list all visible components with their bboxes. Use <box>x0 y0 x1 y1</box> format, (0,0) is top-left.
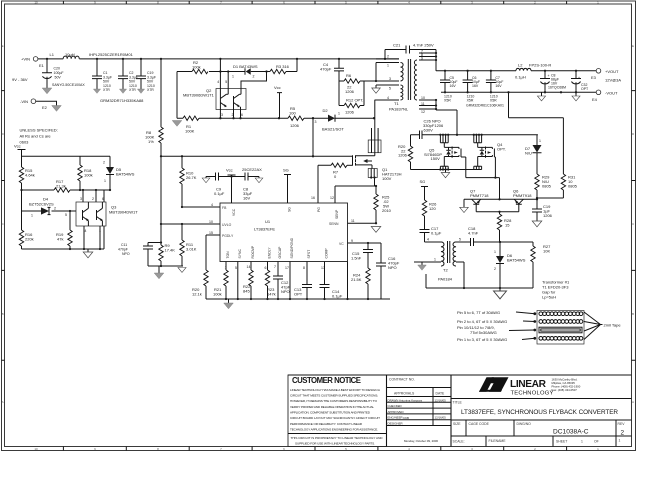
svg-text:R3 316: R3 316 <box>276 64 290 69</box>
wire row y155.5 <box>161 155 353 157</box>
svg-text:NPO: NPO <box>281 289 290 294</box>
wire left col down to D4 row <box>22 190 77 230</box>
svg-text:C11: C11 <box>121 243 127 247</box>
svg-text:3: 3 <box>315 120 317 124</box>
wire VIN top rail <box>38 58 399 60</box>
svg-text:15: 15 <box>505 223 510 228</box>
svg-text:120: 120 <box>429 206 436 211</box>
svg-text:L1: L1 <box>50 52 55 57</box>
svg-text:NPO: NPO <box>388 265 397 270</box>
winding note leader dots <box>533 312 536 315</box>
svg-text:Vcc: Vcc <box>226 168 233 173</box>
svg-text:12/16/05: 12/16/05 <box>435 398 447 402</box>
svg-text:E: E <box>2 44 4 48</box>
svg-text:3: 3 <box>389 77 391 81</box>
svg-text:150V: 150V <box>431 156 441 161</box>
capacitor C32 OPT <box>571 71 589 93</box>
wire Q1 source to sense node <box>374 178 376 187</box>
transformer T1 PA1837NL <box>375 49 458 135</box>
ground (T2 primary) <box>418 265 427 270</box>
resistor R8 <box>145 127 163 144</box>
ground (C9) <box>202 178 210 183</box>
svg-text:U1: U1 <box>265 219 271 224</box>
capacitor C16 <box>376 243 400 299</box>
svg-text:17.4K: 17.4K <box>165 248 176 253</box>
svg-text:+: + <box>548 74 550 78</box>
svg-text:PG: PG <box>317 207 321 212</box>
note transformer #1 <box>542 280 570 300</box>
svg-text:CONTRACT NO.: CONTRACT NO. <box>389 378 415 382</box>
capacitor C7 <box>486 71 504 103</box>
svg-text:D1 BAT43WS: D1 BAT43WS <box>233 64 258 69</box>
svg-text:0805: 0805 <box>568 184 578 189</box>
svg-text:0.1µF: 0.1µF <box>214 191 225 196</box>
svg-text:D2: D2 <box>323 108 329 113</box>
resistor R25 sense <box>374 186 392 223</box>
net SG stub <box>283 168 291 204</box>
svg-text:11: 11 <box>351 219 355 223</box>
svg-text:ENG/NEER: ENG/NEER <box>388 416 403 420</box>
node dots input rail <box>46 58 48 60</box>
svg-text:C21: C21 <box>393 43 401 48</box>
svg-text:X5R: X5R <box>490 99 497 103</box>
capacitor C4 <box>320 59 344 81</box>
svg-text:T2: T2 <box>443 268 448 273</box>
svg-text:APPROVALS: APPROVALS <box>394 392 415 396</box>
svg-text:R6: R6 <box>346 73 352 78</box>
ground (C19) <box>532 221 542 227</box>
svg-text:1.5nF: 1.5nF <box>351 256 362 261</box>
svg-text:1206: 1206 <box>398 153 408 158</box>
capacitor C1 <box>92 59 112 92</box>
svg-text:100: 100 <box>289 111 296 116</box>
svg-text:4: 4 <box>427 238 429 242</box>
ground (R25) <box>371 227 381 233</box>
wire SENN row <box>348 222 377 224</box>
terminal E2 -VIN <box>20 99 48 110</box>
diode D6 BAT54WS <box>494 242 526 288</box>
svg-text:5: 5 <box>389 87 391 91</box>
svg-text:X5R: X5R <box>444 99 451 103</box>
svg-text:CKB: CKB <box>403 416 409 420</box>
svg-text:1: 1 <box>539 139 541 143</box>
wire Q3 bottom pins <box>84 226 100 249</box>
svg-text:10: 10 <box>421 96 425 100</box>
svg-text:4.7nF: 4.7nF <box>468 231 479 236</box>
svg-text:Pin 2 to 4, 6T of 5 X 30AWG: Pin 2 to 4, 6T of 5 X 30AWG <box>457 319 507 324</box>
svg-text:220k: 220k <box>25 237 34 242</box>
wire driver return y288 <box>426 274 533 288</box>
svg-text:21.5K: 21.5K <box>351 277 362 282</box>
node UVLO <box>160 223 162 225</box>
terminal E3 +VOUT <box>591 69 621 83</box>
resistor R28 <box>497 212 512 242</box>
ground (output 2) <box>572 92 580 101</box>
svg-text:SG: SG <box>283 168 289 173</box>
svg-text:APPLICATION. COMPONENT SUBSTI: APPLICATION. COMPONENT SUBSTITUTION AND … <box>290 411 371 415</box>
svg-text:OF: OF <box>594 440 599 444</box>
resistor R2 <box>192 60 208 74</box>
node A (FB row) <box>160 155 162 157</box>
transistor Q3 MBT3904DW1T (dual npn) <box>76 190 138 233</box>
svg-text:+VOUT: +VOUT <box>605 69 619 74</box>
svg-text:15: 15 <box>209 231 213 235</box>
svg-text:2010: 2010 <box>382 208 392 213</box>
svg-text:SENP: SENP <box>335 209 339 219</box>
svg-text:LINEAR TECHNOLOGY HAS MADE A B: LINEAR TECHNOLOGY HAS MADE A BEST EFFORT… <box>290 388 381 392</box>
svg-text:X7R: X7R <box>103 88 110 92</box>
svg-text:SGND/PGND: SGND/PGND <box>290 237 294 258</box>
svg-text:0603: 0603 <box>20 140 30 145</box>
primary winding bumps <box>401 63 404 81</box>
svg-text:1206: 1206 <box>345 89 355 94</box>
ground (C2) <box>119 89 126 93</box>
svg-text:17: 17 <box>285 266 289 270</box>
ground (T1 pin5) <box>372 88 381 93</box>
svg-text:CHECKED: CHECKED <box>388 404 402 408</box>
svg-text:12.1k: 12.1k <box>192 292 202 297</box>
svg-text:DESIGNER: DESIGNER <box>388 422 403 426</box>
svg-text:N/U: N/U <box>525 151 532 156</box>
svg-text:PA1837NL: PA1837NL <box>389 107 409 112</box>
svg-text:Fax: (408) 434-0507: Fax: (408) 434-0507 <box>552 388 578 392</box>
svg-text:100k: 100k <box>192 65 201 70</box>
svg-text:16V: 16V <box>495 84 502 88</box>
resistor R9 <box>159 243 175 266</box>
svg-text:50V: 50V <box>55 76 62 80</box>
capacitor C21 <box>385 43 436 54</box>
svg-text:4: 4 <box>387 96 389 100</box>
svg-text:FILENAME: FILENAME <box>489 439 507 443</box>
svg-text:1: 1 <box>232 75 234 79</box>
node dots y118 <box>219 117 221 119</box>
svg-text:12: 12 <box>330 196 334 200</box>
wire C21 risers <box>385 50 436 71</box>
secondary pins 7/8/9 <box>419 50 436 71</box>
svg-text:100K: 100K <box>185 129 195 134</box>
capacitor C8 output 68uF <box>540 71 566 93</box>
wire ground rail y299 <box>206 299 390 303</box>
svg-text:A: A <box>2 400 4 404</box>
svg-text:DC1038A-C: DC1038A-C <box>553 429 589 436</box>
svg-text:9: 9 <box>351 239 353 243</box>
svg-text:SHEET: SHEET <box>556 440 567 444</box>
svg-text:5: 5 <box>235 266 237 270</box>
svg-text:+: + <box>578 76 580 80</box>
transistor Q6 PMMT918 <box>513 189 532 212</box>
svg-text:LT3837EFE, SYNCHRONOUS FLYBACK: LT3837EFE, SYNCHRONOUS FLYBACK CONVERTER <box>461 409 618 416</box>
svg-text:2: 2 <box>54 207 56 211</box>
svg-text:2mil Tape: 2mil Tape <box>604 323 622 328</box>
wire Q2 right base branch <box>241 72 267 89</box>
svg-text:PGDLY: PGDLY <box>222 234 234 238</box>
svg-text:UNLESS SPECIFED:: UNLESS SPECIFED: <box>20 128 58 133</box>
wire ground rail y249 <box>22 226 105 252</box>
svg-text:630V: 630V <box>424 128 434 133</box>
svg-text:6: 6 <box>102 197 104 201</box>
note UNLESS SPECIFIED <box>20 128 58 145</box>
svg-text:OPT.: OPT. <box>497 147 506 152</box>
svg-text:VC: VC <box>339 242 344 246</box>
svg-text:BAT54WS: BAT54WS <box>507 258 526 263</box>
svg-text:APPROVED: APPROVED <box>388 410 404 414</box>
svg-text:X5R: X5R <box>467 99 474 103</box>
svg-text:1: 1 <box>581 440 583 444</box>
svg-text:1: 1 <box>31 214 33 218</box>
svg-text:9: 9 <box>421 57 423 61</box>
svg-text:IHPL2525CZER1R0M01: IHPL2525CZER1R0M01 <box>89 52 134 57</box>
svg-text:SUPPLIED FOR USE WITH LINEAR T: SUPPLIED FOR USE WITH LINEAR TECHNOLOGY … <box>295 441 375 445</box>
svg-text:All Rs and Cs are: All Rs and Cs are <box>20 134 52 139</box>
svg-text:5: 5 <box>459 238 461 242</box>
svg-text:0805: 0805 <box>542 184 552 189</box>
capacitor C18 <box>467 226 533 246</box>
resistor R24 <box>351 253 370 300</box>
svg-text:147k: 147k <box>267 292 276 297</box>
svg-text:-VOUT: -VOUT <box>605 91 618 96</box>
diode D5 BAT54WS <box>103 161 135 191</box>
svg-text:10: 10 <box>34 0 38 4</box>
wire PGDLY <box>206 235 220 270</box>
svg-text:GRM32DR61C106KA01: GRM32DR61C106KA01 <box>466 104 504 108</box>
svg-text:6: 6 <box>241 113 243 117</box>
resistor R26 <box>422 200 437 230</box>
svg-text:OPT: OPT <box>294 292 303 297</box>
svg-text:470pF: 470pF <box>320 67 332 72</box>
svg-text:OSCAP: OSCAP <box>278 246 282 259</box>
svg-text:SCALE:: SCALE: <box>453 440 465 444</box>
svg-text:FB: FB <box>222 206 227 210</box>
svg-text:10: 10 <box>209 220 213 224</box>
wire Q1 drain to T1 pin4 <box>374 100 376 140</box>
secondary pins 10/11/12 <box>419 100 457 135</box>
wire UVLO row <box>161 223 220 225</box>
svg-text:16V: 16V <box>472 84 479 88</box>
svg-text:4.64k: 4.64k <box>25 173 35 178</box>
size/cage/dwg row <box>466 420 616 436</box>
svg-text:Lp=5uH: Lp=5uH <box>542 295 556 300</box>
svg-text:UVLO: UVLO <box>222 223 232 227</box>
svg-text:PERFORMANCE OR RELIABILITY. C: PERFORMANCE OR RELIABILITY. CONTACT LINE… <box>290 422 363 426</box>
svg-text:1206: 1206 <box>345 110 355 115</box>
capacitor C9 <box>214 173 225 197</box>
svg-text:2: 2 <box>387 55 389 59</box>
svg-text:25CE22AX: 25CE22AX <box>242 167 262 172</box>
svg-text:1206: 1206 <box>290 123 300 128</box>
svg-text:2: 2 <box>253 75 255 79</box>
svg-text:7Tof 5x30AWG: 7Tof 5x30AWG <box>470 330 497 335</box>
svg-text:845: 845 <box>243 289 250 294</box>
svg-text:16: 16 <box>311 196 315 200</box>
svg-text:CIRCUIT BOARD LAYOUT MAY SIGNI: CIRCUIT BOARD LAYOUT MAY SIGNIFICANTLY A… <box>290 416 380 420</box>
svg-text:MBT3906DW1T1: MBT3906DW1T1 <box>183 93 215 98</box>
svg-text:14: 14 <box>247 265 251 269</box>
svg-text:SANYO-50CE100AX: SANYO-50CE100AX <box>52 83 85 87</box>
svg-text:E1: E1 <box>39 63 45 68</box>
resistor R21 <box>213 270 228 299</box>
wire emitters y211.8 <box>476 211 519 213</box>
svg-text:E4: E4 <box>592 97 598 102</box>
capacitor C19 <box>136 59 156 92</box>
wire Q2 top pins <box>220 72 228 89</box>
wire -VOUT to R31 via jog <box>509 92 564 174</box>
svg-text:3.01K: 3.01K <box>186 247 197 252</box>
svg-text:THIS CIRCUIT IS PROPRIETARY TO: THIS CIRCUIT IS PROPRIETARY TO LINEAR TE… <box>291 436 384 440</box>
ground (R1 left) <box>172 121 182 127</box>
svg-text:SG: SG <box>420 179 426 184</box>
wire SENP row y186 <box>335 186 376 203</box>
svg-text:DRAWN: DRAWN <box>388 398 399 402</box>
node dots output rails <box>444 70 446 72</box>
svg-text:REV: REV <box>618 422 626 426</box>
svg-text:C20: C20 <box>54 67 60 71</box>
svg-text:16TQC68M: 16TQC68M <box>548 86 566 90</box>
svg-text:Pin 5 to 6, 7T of 30AWG: Pin 5 to 6, 7T of 30AWG <box>457 310 500 315</box>
svg-text:10K: 10K <box>543 249 550 254</box>
ground (driver return) <box>494 288 507 299</box>
svg-text:100V: 100V <box>382 176 392 181</box>
svg-text:470pF: 470pF <box>118 248 128 252</box>
svg-text:12V@3A: 12V@3A <box>605 78 621 83</box>
resistor R29 <box>535 174 552 198</box>
capacitor C26 snubber <box>411 119 445 140</box>
ground (Q5 source) <box>441 170 450 178</box>
resistor R15 <box>19 167 34 190</box>
svg-text:1: 1 <box>387 64 389 68</box>
svg-text:SENN: SENN <box>329 222 339 226</box>
svg-text:2: 2 <box>621 430 625 437</box>
wire U1 corner to rail <box>347 262 349 300</box>
svg-text:5: 5 <box>225 80 227 84</box>
resistor R18 <box>78 165 93 190</box>
capacitor C5 <box>440 71 458 103</box>
svg-text:NPO: NPO <box>122 252 130 256</box>
svg-text:L2: L2 <box>518 63 523 68</box>
svg-text:TON: TON <box>226 251 230 259</box>
svg-text:ENDLY: ENDLY <box>268 247 272 259</box>
svg-text:1: 1 <box>494 250 496 254</box>
svg-text:11: 11 <box>421 102 425 106</box>
svg-text:0.1µF: 0.1µF <box>332 294 343 299</box>
transistor Q4 OPT (sync fet) <box>474 135 506 170</box>
svg-text:CAGE CODE: CAGE CODE <box>469 422 490 426</box>
resistor R16 <box>19 230 33 249</box>
transistor Q1 HAT2173H (nmos) <box>353 128 402 181</box>
svg-text:2: 2 <box>494 267 496 271</box>
resistor R20s 22 1206 <box>398 135 413 170</box>
zener D4 BZT52C6V2S <box>29 197 67 218</box>
core <box>408 59 410 100</box>
ground (Q7 collector) <box>460 207 469 212</box>
svg-text:VERIFY PROPER AND RELIABLE OPE: VERIFY PROPER AND RELIABLE OPERATION IN … <box>290 405 374 409</box>
svg-text:4: 4 <box>85 229 87 233</box>
inductor L1 <box>50 52 134 59</box>
svg-text:4: 4 <box>217 80 219 84</box>
svg-text:X7R: X7R <box>129 88 136 92</box>
svg-text:B: B <box>2 312 4 316</box>
resistor R11 <box>180 224 197 266</box>
svg-text:VCC: VCC <box>232 208 236 216</box>
wire E2 to ground <box>36 101 57 105</box>
wire gate drive net <box>466 157 500 199</box>
capacitor C14 <box>320 285 343 300</box>
wire R8 column <box>160 59 162 245</box>
svg-text:12/16/05: 12/16/05 <box>435 416 447 420</box>
resistor R6 <box>344 73 360 94</box>
ground (C1) <box>93 89 100 93</box>
svg-text:2: 2 <box>92 197 94 201</box>
svg-text:6: 6 <box>265 266 267 270</box>
svg-text:3: 3 <box>221 113 223 117</box>
ground (E2) <box>52 106 62 112</box>
resistor R20 <box>192 270 208 299</box>
svg-text:5: 5 <box>65 213 67 217</box>
terminal E1 +VIN <box>21 56 45 68</box>
diode D1 <box>232 64 258 79</box>
resistor R22 <box>243 270 253 299</box>
2mil tape bracket <box>584 312 603 340</box>
svg-text:MBT3904DW1T: MBT3904DW1T <box>109 210 138 215</box>
transistor Q2 MBT3906DW1T1 (dual pnp) <box>183 80 246 117</box>
svg-text:1206: 1206 <box>543 213 553 218</box>
svg-text:DWG/NO: DWG/NO <box>517 422 532 426</box>
svg-text:E3: E3 <box>591 75 597 80</box>
svg-text:47k: 47k <box>57 237 63 242</box>
capacitor C6 <box>463 71 480 103</box>
svg-text:2: 2 <box>103 161 105 165</box>
svg-text:12: 12 <box>421 110 425 114</box>
node dots row <box>219 70 221 72</box>
svg-text:E: E <box>632 44 634 48</box>
title cell <box>451 399 632 437</box>
ground (C8) <box>255 178 263 183</box>
svg-text:1: 1 <box>104 179 106 183</box>
capacitor C12 <box>273 276 291 299</box>
svg-text:8: 8 <box>303 266 305 270</box>
wire Vcc row y157 <box>22 156 111 167</box>
svg-text:T1: T1 <box>394 101 399 106</box>
capacitor C2 <box>118 59 138 92</box>
svg-text:FP2S-100-R: FP2S-100-R <box>529 63 551 68</box>
svg-text:BAT54WS: BAT54WS <box>116 172 135 177</box>
wire Q2 bottom pins <box>220 89 240 119</box>
winding stack diagram <box>457 310 621 344</box>
svg-text:BZT52C6V2S: BZT52C6V2S <box>29 202 54 207</box>
svg-text:TITLE: TITLE <box>453 401 463 405</box>
svg-text:LT3837EFE: LT3837EFE <box>254 227 275 232</box>
resistor R10 <box>180 156 197 207</box>
power Vcc (U1) <box>226 168 236 204</box>
ground (U1 rail) <box>224 303 234 309</box>
svg-text:4.7nF 250V: 4.7nF 250V <box>413 43 434 48</box>
resistor R31 <box>561 174 577 198</box>
ground (output 1) <box>537 92 545 101</box>
svg-text:100k: 100k <box>84 173 93 178</box>
resistor R23 <box>265 270 275 299</box>
svg-text:1: 1 <box>338 112 340 116</box>
wire +VOUT rail <box>436 70 596 72</box>
wire driver top rail y199.3 <box>464 199 537 207</box>
capacitor C8 33uF <box>242 167 262 201</box>
svg-text:CIRCUIT THAT MEETS CUSTOMER-SU: CIRCUIT THAT MEETS CUSTOMER-SUPPLIED SPE… <box>290 394 378 398</box>
svg-text:PMMT918: PMMT918 <box>513 193 532 198</box>
wire R29/R31 node <box>537 197 563 199</box>
wire bottom y266 <box>148 266 183 273</box>
svg-text:ROCMP: ROCMP <box>251 245 255 258</box>
wire secondary return rail y134.8 <box>440 134 538 136</box>
wire row y190 with R17 <box>22 189 111 191</box>
wire C4 node <box>339 81 376 106</box>
